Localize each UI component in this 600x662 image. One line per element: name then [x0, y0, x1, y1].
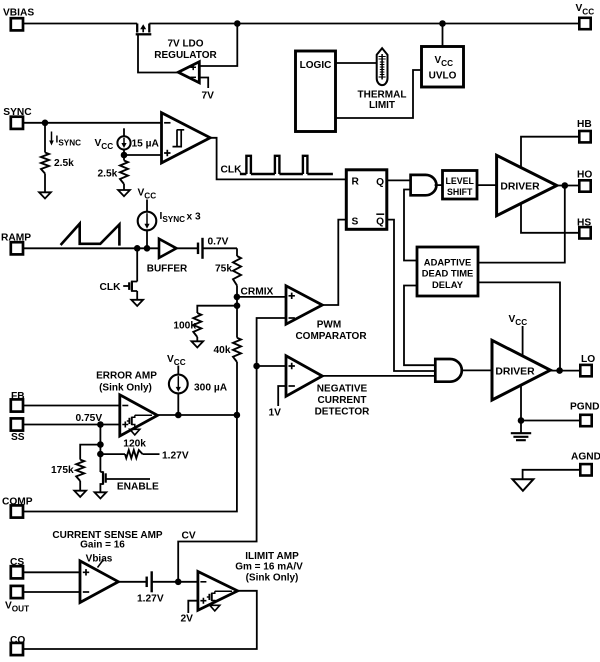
svg-text:x 3: x 3 — [187, 212, 201, 223]
svg-text:PGND: PGND — [570, 401, 599, 412]
svg-text:300 µA: 300 µA — [194, 382, 228, 393]
svg-text:CRMIX: CRMIX — [241, 287, 274, 298]
svg-text:CS: CS — [10, 557, 24, 568]
svg-text:LIMIT: LIMIT — [369, 100, 395, 111]
svg-text:Gain = 16: Gain = 16 — [80, 539, 125, 550]
svg-text:(Sink Only): (Sink Only) — [246, 572, 299, 583]
svg-text:COMPARATOR: COMPARATOR — [295, 331, 367, 342]
svg-text:VBIAS: VBIAS — [3, 7, 34, 18]
svg-text:CLK: CLK — [221, 165, 243, 176]
svg-text:175k: 175k — [51, 465, 74, 476]
svg-text:RAMP: RAMP — [1, 232, 31, 243]
svg-text:COMP: COMP — [2, 496, 33, 507]
svg-text:THERMAL: THERMAL — [358, 89, 407, 100]
svg-text:ERROR AMP: ERROR AMP — [96, 371, 157, 382]
svg-text:NEGATIVE: NEGATIVE — [317, 384, 368, 395]
svg-text:(Sink Only): (Sink Only) — [99, 382, 152, 393]
svg-text:1.27V: 1.27V — [137, 593, 164, 604]
svg-text:LEVEL: LEVEL — [446, 176, 475, 186]
svg-text:Gm = 16 mA/V: Gm = 16 mA/V — [235, 562, 303, 573]
svg-text:7V: 7V — [202, 91, 215, 102]
svg-text:CLK: CLK — [100, 282, 122, 293]
svg-text:S: S — [352, 216, 359, 227]
svg-text:AGND: AGND — [571, 452, 600, 463]
svg-text:REGULATOR: REGULATOR — [154, 50, 217, 61]
svg-text:0.7V: 0.7V — [208, 236, 229, 247]
svg-text:120k: 120k — [123, 438, 146, 449]
svg-text:Q: Q — [376, 177, 384, 188]
svg-text:PWM: PWM — [317, 319, 341, 330]
svg-text:SYNC: SYNC — [3, 107, 32, 118]
svg-text:HB: HB — [577, 119, 592, 130]
svg-text:CV: CV — [182, 530, 196, 541]
svg-text:HS: HS — [577, 218, 591, 229]
svg-text:FB: FB — [11, 391, 25, 402]
svg-text:R: R — [352, 177, 360, 188]
svg-text:SS: SS — [11, 432, 25, 443]
svg-text:UVLO: UVLO — [429, 71, 457, 82]
svg-text:CURRENT: CURRENT — [318, 395, 367, 406]
svg-text:75k: 75k — [215, 264, 232, 275]
svg-text:DRIVER: DRIVER — [500, 181, 540, 192]
svg-text:CO: CO — [10, 635, 25, 646]
svg-text:2.5k: 2.5k — [98, 169, 118, 180]
svg-text:40k: 40k — [214, 345, 231, 356]
svg-text:Q: Q — [376, 217, 384, 228]
svg-text:LOGIC: LOGIC — [300, 60, 332, 71]
svg-text:100k: 100k — [173, 321, 196, 332]
svg-text:DELAY: DELAY — [432, 279, 464, 290]
svg-text:BUFFER: BUFFER — [147, 263, 188, 274]
svg-text:15 µA: 15 µA — [132, 139, 160, 150]
svg-text:LO: LO — [581, 354, 595, 365]
svg-text:SHIFT: SHIFT — [447, 187, 473, 197]
svg-text:2.5k: 2.5k — [54, 158, 74, 169]
svg-text:2V: 2V — [181, 614, 194, 625]
svg-text:HO: HO — [577, 170, 592, 181]
svg-text:Vbias: Vbias — [86, 553, 113, 564]
svg-text:ADAPTIVE: ADAPTIVE — [424, 256, 471, 267]
svg-text:DRIVER: DRIVER — [495, 366, 535, 377]
svg-text:DETECTOR: DETECTOR — [315, 407, 371, 418]
svg-text:1.27V: 1.27V — [162, 450, 189, 461]
svg-text:1V: 1V — [269, 408, 282, 419]
svg-text:ENABLE: ENABLE — [117, 482, 159, 493]
svg-text:ILIMIT AMP: ILIMIT AMP — [245, 551, 299, 562]
svg-text:DEAD TIME: DEAD TIME — [422, 268, 474, 279]
svg-text:7V LDO: 7V LDO — [167, 39, 203, 50]
